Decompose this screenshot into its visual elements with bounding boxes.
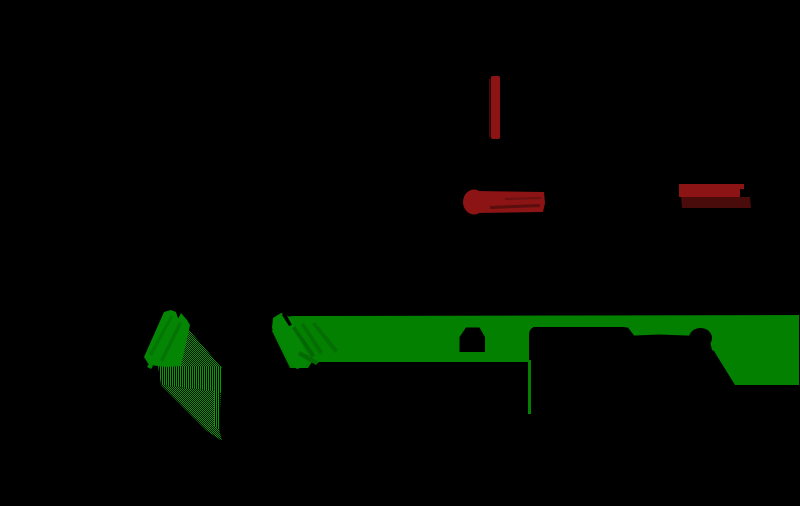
- annotation V1 edge streak: [489, 79, 491, 137]
- half-tone green lower dither wedge: [161, 385, 222, 441]
- wire hop B1: black crossover bump over green band: [460, 328, 486, 353]
- annotation I2 dark lower half: [681, 197, 751, 208]
- ground scribble tail speck: [147, 364, 153, 369]
- annotation I1: red current arrow pointing left: [464, 191, 545, 213]
- arrow I1 dark streak: [490, 204, 540, 209]
- component body U1: black cutout over green band: [529, 327, 628, 380]
- annotation V1: red vertical tick stroke: [491, 76, 500, 139]
- arrow I1 dark streak: [505, 197, 541, 200]
- wire N1: green highlighted horizontal net (main band): [272, 315, 799, 385]
- ground scribble GND1: bright green hatch patch: [144, 310, 190, 367]
- annotation I2 bright speck at right end: [739, 184, 744, 189]
- arrow I1 head blob: [463, 190, 485, 215]
- black notch between scribble and band: [282, 312, 292, 326]
- wire hop B2: black crossover bump on band bottom edge: [689, 328, 712, 348]
- marker streak: [298, 351, 319, 365]
- wire N2: thin green vertical branch: [528, 360, 531, 414]
- marker streak: [312, 322, 338, 353]
- marker streak: [301, 323, 323, 355]
- ground scribble dark gap streak: [149, 315, 173, 356]
- wire N1 start scribble (green marker left end): [272, 313, 308, 369]
- half-tone green wash (checkerboard dither region): [162, 315, 222, 368]
- half-tone green wash (striped dither region): [158, 366, 221, 392]
- marker streak (dark overlap in band start): [292, 326, 315, 358]
- annotation I2: red bar stroke (bright top): [679, 184, 740, 197]
- ground scribble dark gap streak: [160, 322, 182, 362]
- half-tone green right stripe column: [214, 390, 220, 430]
